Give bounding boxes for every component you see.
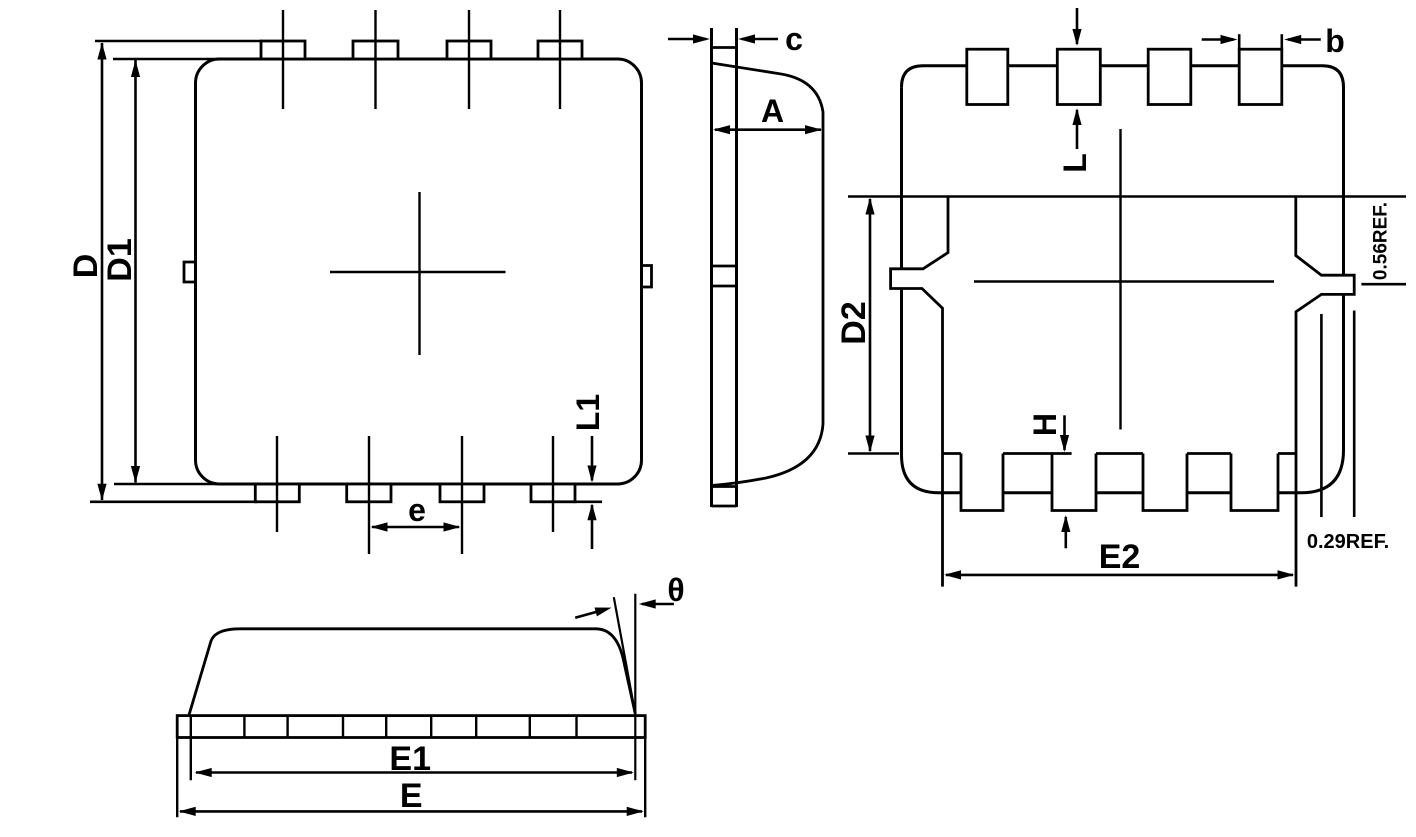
dimension e line with arrows [372, 526, 459, 529]
bottom view pad bottom edge segment 2 with H tick [1003, 452, 1072, 455]
dimension D line [101, 43, 104, 500]
side view lead strip left line [710, 28, 713, 507]
svg-text:c: c [785, 21, 803, 57]
bottom view bottom edge segment 3 [1096, 491, 1143, 494]
bottom view pad 4 [1239, 49, 1282, 104]
bottom view exposed pad right outline with tab [1296, 197, 1354, 587]
top view package body [196, 59, 642, 484]
top view crosshair horizontal [330, 271, 506, 273]
side view strip bottom rung [712, 485, 737, 488]
dimension theta slant reference line [614, 597, 636, 714]
svg-text:L: L [1057, 153, 1093, 173]
dimension D1 extension line bottom [114, 483, 280, 486]
bottom view pad bottom edge segment 1 [943, 452, 962, 455]
bottom view tooth 2 [1052, 454, 1096, 511]
svg-text:E1: E1 [389, 740, 431, 778]
bottom view bottom edge segment 2 [1003, 491, 1052, 494]
dimension E2 line with arrows [946, 574, 1293, 577]
bottom view tooth 1 [961, 454, 1003, 511]
top view bottom pin centerline 1 [276, 436, 278, 532]
dimension E line with arrows [180, 810, 642, 813]
side view strip top rung [712, 46, 737, 49]
svg-text:b: b [1325, 23, 1345, 59]
dimension L arrow up [1076, 110, 1079, 149]
dimension b tick right [1281, 34, 1284, 50]
svg-text:0.29REF.: 0.29REF. [1307, 531, 1389, 553]
svg-text:D1: D1 [101, 238, 139, 281]
top view bottom pin centerline 2 [368, 436, 370, 554]
dimension D extension line bottom right segment [573, 500, 602, 503]
bottom view crosshair vertical [1119, 129, 1121, 430]
top view bottom pin centerline 3 [461, 436, 463, 554]
dimension D arrow up [97, 43, 106, 60]
dimension theta arrow right [642, 603, 674, 606]
dimension c arrow left [668, 38, 706, 41]
dimension b arrow right [1288, 38, 1321, 41]
front view strip divider 7 [475, 716, 477, 738]
svg-text:0.56REF.: 0.56REF. [1371, 202, 1392, 280]
bottom view bottom edge segment 4 [1187, 491, 1231, 494]
svg-text:L1: L1 [570, 394, 606, 431]
bottom view top edge segment pad2-pad3 [1100, 64, 1148, 67]
bottom view pad bottom edge segment 3 [1096, 452, 1143, 455]
svg-text:D: D [67, 254, 105, 279]
side view strip bottom edge [712, 505, 737, 508]
front view strip divider 9 [575, 716, 577, 738]
svg-text:θ: θ [667, 572, 684, 608]
dimension D2 arrow up [865, 198, 874, 215]
dimension b arrow left [1202, 38, 1234, 41]
dimension E1 line with arrows [196, 771, 632, 774]
dimension theta vertical reference line [634, 594, 636, 781]
svg-text:H: H [1027, 413, 1063, 436]
front view strip divider 8 [529, 716, 531, 738]
top view top pin centerline 3 [468, 10, 470, 109]
dimension D1 arrow down [131, 466, 140, 483]
bottom view left edge lower and bottom-left corner [902, 289, 962, 493]
front view strip divider 6 [430, 716, 432, 738]
bottom view crosshair horizontal [974, 280, 1274, 282]
bottom view tooth 4 [1231, 454, 1278, 511]
dimension 0.29REF line left [1320, 314, 1323, 517]
svg-text:E: E [400, 777, 423, 815]
front view strip divider 5 [385, 716, 387, 738]
bottom view top edge from pad4 and top-right corner [1282, 66, 1344, 275]
front view strip divider 4 [342, 716, 344, 738]
top view top pin 2 [353, 41, 398, 59]
top view top pin 3 [447, 41, 491, 59]
side view body profile [712, 63, 824, 486]
dimension D2 bottom tick [848, 452, 899, 455]
bottom view pad 1 [967, 49, 1008, 104]
dimension E extension left [176, 738, 178, 818]
svg-text:D2: D2 [835, 301, 873, 344]
svg-text:e: e [408, 492, 426, 528]
dimension L1 arrow up [591, 505, 594, 549]
side view lead strip right line [735, 28, 738, 507]
dimension D arrow down [97, 484, 106, 501]
dimension E extension right [644, 738, 646, 818]
dimension D2 line [869, 199, 872, 451]
bottom view pad 3 [1148, 49, 1191, 104]
dimension theta arrow left slanted [575, 610, 604, 618]
dimension H arrow down [1063, 415, 1066, 450]
dimension D1 arrow up [131, 60, 140, 77]
top view crosshair vertical [418, 192, 420, 355]
svg-text:A: A [761, 93, 784, 129]
bottom view exposed pad left outline with tab [891, 197, 948, 587]
top view top pin 4 [538, 41, 582, 59]
side view strip tab rung lower [712, 285, 737, 288]
bottom view top edge segment pad1-pad2 [1008, 64, 1058, 67]
dimension D extension line bottom left segment [90, 500, 257, 503]
dimension 0.29REF line right [1353, 311, 1356, 518]
front view strip divider 3 [286, 716, 288, 738]
dimension c arrow right [742, 38, 778, 41]
bottom view top edge segment pad3-pad4 [1191, 64, 1239, 67]
dimension H arrow up [1065, 517, 1068, 548]
dimension D2 arrow down [865, 436, 874, 453]
top view top pin 1 [261, 41, 305, 59]
dimension L arrow down [1076, 8, 1079, 44]
top view bottom pin 3 [440, 484, 484, 502]
bottom view tooth 3 [1143, 454, 1187, 511]
top view bottom pin 1 [255, 484, 299, 502]
bottom view left edge upper [900, 87, 903, 269]
bottom view exposed pad top edge long line [848, 195, 1406, 198]
front view strip divider 1 [190, 716, 192, 781]
front view body profile [189, 629, 636, 716]
dimension b tick left [1238, 34, 1241, 50]
front view strip divider 2 [243, 716, 245, 738]
side view strip tab rung upper [712, 265, 737, 268]
top view top pin centerline 1 [282, 10, 284, 109]
dimension A line with arrows [715, 128, 821, 131]
bottom view outline top-left corner and top edge to pad1 [902, 66, 967, 88]
bottom view pad 2 [1057, 49, 1100, 104]
top view right index tab [642, 266, 652, 288]
top view top pin centerline 4 [559, 10, 561, 109]
top view bottom pin 4 [531, 484, 575, 502]
bottom view pad bottom edge segment 5 [1278, 452, 1296, 455]
dimension D1 extension line top [113, 58, 280, 61]
bottom view pad bottom edge segment 4 [1187, 452, 1231, 455]
top view bottom pin 2 [347, 484, 391, 502]
dimension 0.56REF lower tick [1361, 283, 1406, 286]
dimension L1 arrow down [591, 436, 594, 481]
top view left index tab [184, 262, 196, 282]
front view lead strip [177, 716, 645, 738]
top view bottom pin centerline 4 [552, 436, 554, 532]
top view top pin centerline 2 [374, 10, 376, 109]
dimension D extension line top [95, 40, 262, 43]
svg-text:E2: E2 [1099, 538, 1141, 576]
dimension D1 line [134, 60, 137, 483]
bottom view bottom edge segment 5 and bottom-right corner [1278, 294, 1344, 492]
